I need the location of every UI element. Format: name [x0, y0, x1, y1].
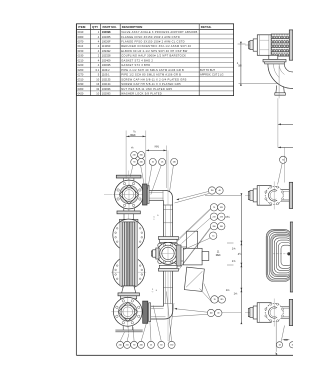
svg-text:COUPLING HALF 3000# 1/2 NPT BA: COUPLING HALF 3000# 1/2 NPT BARSTOCK [121, 54, 186, 58]
svg-text:SCREW CAP HH 5/8-11 X 3 PLATED: SCREW CAP HH 5/8-11 X 3 PLATED GR5 [121, 82, 181, 86]
svg-text:102134: 102134 [102, 82, 111, 86]
balloons 272 273 [210, 213, 217, 220]
detail A vertical centerline down [278, 66, 280, 98]
svg-text:WASHER LOCK 5/8 PLATED: WASHER LOCK 5/8 PLATED [121, 92, 162, 96]
loop flange circle upper [113, 219, 145, 251]
svg-text:N½: N½ [155, 144, 160, 148]
svg-text:113390: 113390 [102, 44, 111, 48]
balloon 90 [280, 156, 287, 163]
svg-text:102328: 102328 [102, 54, 111, 58]
right dimension stack [205, 194, 241, 196]
svg-text:REF.: REF. [216, 254, 222, 257]
spiral right plate [290, 222, 293, 292]
svg-text:QTY: QTY [92, 25, 98, 29]
svg-text:1109.2: 1109.2 [102, 68, 110, 72]
balloon 26 [159, 158, 166, 165]
bottom balloon row [117, 341, 124, 348]
balloons 110 040 lower [207, 309, 214, 316]
svg-text:ELBOW 90 LR 2-1/2 NPS SCH 40 X: ELBOW 90 LR 2-1/2 NPS SCH 40 XH CSP BW [121, 49, 188, 53]
braided hose band [120, 222, 123, 286]
elbow top (turn down) [165, 190, 173, 205]
BOM table grid [76, 24, 233, 96]
svg-text:0190: 0190 [78, 54, 84, 58]
detail A braided hose with stipple [271, 34, 291, 56]
balloon 130 bottom right [276, 342, 282, 348]
valve upper flange bars [158, 237, 178, 240]
actuator right tab [202, 252, 209, 261]
svg-text:0210: 0210 [78, 58, 84, 62]
svg-text:15: 15 [291, 345, 293, 347]
svg-text:0060: 0060 [78, 35, 84, 39]
svg-text:100935: 100935 [102, 63, 111, 67]
svg-text:0360: 0360 [78, 87, 84, 91]
detail A centerline [245, 44, 293, 46]
svg-text:0270: 0270 [78, 73, 84, 77]
balloons 210 310 [131, 152, 138, 159]
pipe centerline vertical [167, 150, 169, 205]
valve lower flange bars [159, 265, 177, 268]
elbow bottom (turn left) [151, 304, 173, 319]
svg-text:PIPE 2-1/2 SCH 40 SMLS ASTM A1: PIPE 2-1/2 SCH 40 SMLS ASTM A106 GR B [121, 68, 184, 72]
svg-text:DESCRIPTION: DESCRIPTION [122, 25, 143, 29]
svg-text:0110: 0110 [78, 44, 84, 48]
svg-text:102409: 102409 [102, 58, 111, 62]
svg-text:109492: 109492 [102, 49, 111, 53]
F1 right gasket bars [143, 184, 148, 205]
balloons 90 410 [131, 158, 138, 165]
dimension 1-5/8 right of table [240, 44, 242, 84]
dim line A [126, 135, 146, 137]
top leader lines [130, 165, 133, 177]
F1 bottom stub + bar [123, 208, 125, 211]
F2 right gasket bars [143, 301, 148, 323]
detail A elbow down-right [268, 64, 293, 89]
svg-text:0330: 0330 [78, 82, 84, 86]
svg-text:0310: 0310 [78, 77, 84, 81]
svg-text:102098: 102098 [102, 30, 111, 34]
svg-text:10026F: 10026F [102, 40, 111, 44]
F2 top bar [121, 296, 137, 299]
F2 bottom base lines [122, 326, 124, 330]
dim line upper (to detail B) [278, 123, 293, 125]
main vertical centerline left assembly [128, 171, 130, 334]
leaders to elbow [177, 192, 209, 200]
balloons 70 315 [210, 204, 217, 211]
right leader fan [180, 209, 211, 238]
spiral center tube end [288, 253, 291, 256]
detail A neck and flange bars [269, 55, 278, 59]
svg-text:GASKET ST2 3 BHD: GASKET ST2 3 BHD [121, 63, 150, 67]
svg-text:103936: 103936 [102, 87, 111, 91]
vertical pipe upper segment [162, 205, 164, 237]
svg-text:0260: 0260 [78, 68, 84, 72]
actuator upper block [187, 231, 198, 248]
horizontal pipe from F1 [149, 189, 164, 191]
svg-text:102365: 102365 [102, 35, 111, 39]
svg-text:102135: 102135 [102, 77, 111, 81]
svg-text:102093: 102093 [102, 92, 111, 96]
svg-text:VALVE ASSY ANGLE 3 PROCESS AIR: VALVE ASSY ANGLE 3 PROCESS AIRPORT ABSOR… [121, 30, 197, 34]
flange F1 top bar [116, 175, 141, 178]
extension line to elbow centerline [239, 83, 279, 85]
balloon 130 [171, 158, 178, 165]
balloons 260 310 [210, 223, 217, 230]
svg-text:0070: 0070 [78, 40, 84, 44]
balloon (cut) bottom right [289, 342, 295, 348]
detail B tee side view [245, 194, 278, 196]
actuator lower block (angled) [184, 267, 204, 291]
svg-text:BUT TO BUT: BUT TO BUT [200, 68, 215, 72]
svg-text:0220: 0220 [78, 63, 84, 67]
svg-text:APPROX. CUT 2 LG: APPROX. CUT 2 LG [200, 73, 223, 77]
valve body plan [174, 259, 178, 263]
svg-text:0420: 0420 [78, 92, 84, 96]
vertical pipe lower segment [162, 271, 164, 304]
detail C dim arrows [283, 339, 290, 341]
svg-text:0.1: 0.1 [96, 68, 100, 72]
valve left stub stack [156, 248, 159, 259]
detail A right flange plate [289, 30, 293, 60]
detail C tee side view [245, 312, 278, 314]
detail A nipple [249, 41, 250, 48]
balloon 15 [149, 158, 156, 165]
actuator main block [183, 248, 202, 265]
valve right mounting plate [176, 245, 181, 266]
dim line lower (to detail B) [278, 146, 293, 148]
svg-text:PART NO.: PART NO. [103, 25, 117, 29]
svg-text:GASKET ST2 4 BHD 2: GASKET ST2 4 BHD 2 [121, 58, 153, 62]
dim line B [146, 149, 167, 151]
svg-text:FLANGE FFSO 3X150 150# 2 AVM: FLANGE FFSO 3X150 150# 2 AVM CL CSTD [121, 40, 185, 44]
balloon 15 right [210, 232, 217, 239]
F1 horizontal centerline stub [104, 194, 112, 196]
svg-text:1109.1: 1109.1 [102, 73, 110, 77]
svg-text:DETAIL: DETAIL [201, 25, 212, 29]
hose top cap bar [120, 219, 138, 222]
balloons 110 040 upper [208, 187, 215, 194]
svg-text:NUT HEX 5/8-11 UNC PLATED GR5: NUT HEX 5/8-11 UNC PLATED GR5 [121, 87, 172, 91]
detail C leader lines [275, 322, 277, 352]
svg-text:0010: 0010 [78, 30, 84, 34]
drawing frame bottom border [76, 354, 293, 356]
leader from balloon 90 [278, 163, 283, 184]
bottom leader lines [120, 332, 124, 341]
svg-text:SCREW CAP HH 5/8-11 X 2-3/4 PL: SCREW CAP HH 5/8-11 X 2-3/4 PLATED GR5 [121, 77, 187, 81]
loop flange circle lower [113, 256, 145, 288]
spiral coil detail [266, 229, 291, 281]
hose bottom bar [118, 293, 139, 296]
hose bottom flare [122, 286, 136, 293]
balloons 70 315 lower [211, 296, 218, 303]
drawing frame left border [75, 24, 77, 356]
svg-text:0150: 0150 [78, 49, 84, 53]
detail A bottom outlet stub [276, 86, 284, 93]
flange F1 face [115, 180, 144, 209]
spiral shading bands [267, 230, 291, 281]
detail A valve body [257, 35, 271, 56]
svg-text:PIPE 1/2 SCH 80 SMLS ASTM A106: PIPE 1/2 SCH 80 SMLS ASTM A106 GR B [121, 73, 181, 77]
svg-text:ITEM: ITEM [78, 25, 86, 29]
svg-text:FLANGE FFSO 3X150 150# 4 AVM: FLANGE FFSO 3X150 150# 4 AVM CSTD [121, 35, 180, 39]
svg-text:REDUCER CONCENTRIC 3X2-1/2 ASS: REDUCER CONCENTRIC 3X2-1/2 ASSM SCH 40 [121, 44, 191, 48]
flange F2 face [113, 297, 142, 326]
